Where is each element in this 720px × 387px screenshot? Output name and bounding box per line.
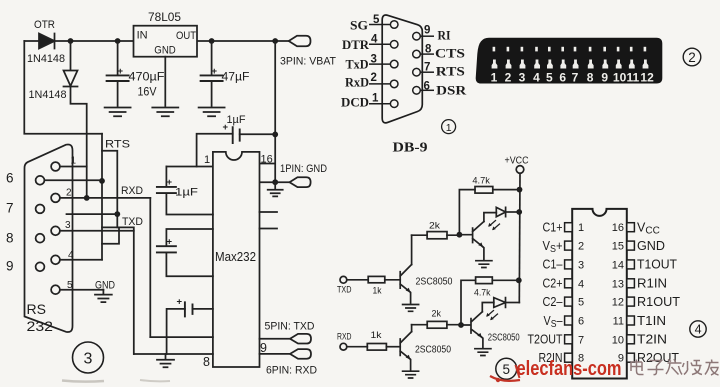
svg-text:C2–: C2– [543,295,563,309]
text U3 pin numbers right [612,222,624,365]
wire left rail down from diode anode [24,41,102,134]
text label T1OUT [637,258,677,272]
text label 5PIN TXD [265,321,315,333]
text label C2+ [543,277,563,291]
text DB9 pin number 1 [71,156,77,167]
svg-text:7: 7 [578,334,584,346]
svg-text:1k: 1k [373,286,382,297]
svg-text:+VCC: +VCC [505,156,529,167]
connector block pin contacts row2 [492,60,649,69]
text label 1k lower [371,330,382,341]
wire RTS net vertical [101,134,103,260]
text label TxD [346,57,369,72]
node dot T TXD junction [114,211,120,217]
svg-text:470µF: 470µF [129,70,165,84]
wire R4 right to VCC [492,279,519,281]
text label +VCC [505,156,529,167]
node dot 1uF cap junction [272,132,278,138]
capacitor C4 leads to Max232 [166,167,213,215]
wire Q4 collector to LED2 [482,303,494,312]
node dot pin15 GND junction [272,179,278,185]
node dot 4.7k2 [516,277,522,283]
text label T1IN [637,314,666,328]
text label 16V [138,85,157,99]
svg-text:4.7k: 4.7k [472,176,490,187]
text label RxD [345,75,369,90]
ground below Q4 [475,349,491,356]
text pin number 1 of Max232 [204,154,210,166]
svg-text:6: 6 [6,171,14,186]
text label TXD [122,216,143,228]
text label CTS [435,46,465,61]
wire bottom rail upper (to Max232) [150,336,213,338]
svg-text:11: 11 [613,316,624,328]
text pin number 8 of Max232 [203,355,210,369]
svg-text:+: + [167,237,173,248]
plus sign C5 [167,237,173,248]
svg-text:12: 12 [640,71,654,85]
watermark text elecfans.com [517,358,622,380]
text label DCD [341,95,369,110]
svg-text:1: 1 [372,93,379,105]
DB-9 pin 9 circle and lead [413,32,434,40]
svg-text:RTS: RTS [436,64,465,79]
svg-text:3: 3 [519,71,526,85]
node dot at VBAT tap [272,38,278,44]
text label C1+ [543,221,563,235]
svg-text:5: 5 [503,362,511,377]
ground below C2 [199,108,225,117]
wire from D2 cathode down then right then down to RS232 area [71,87,87,198]
text label 1uF top [227,114,246,126]
capacitor C6 leads [167,309,213,354]
capacitor C6 (horizontal near pin8) plates [185,302,193,316]
capacitor C2 47uF leads [211,41,213,106]
svg-text:GND: GND [154,45,176,57]
text label 4.7k lower [474,288,491,299]
capacitor C1 470uF plates [107,75,129,81]
resistor R3 1k body [368,276,385,282]
svg-text:2: 2 [66,188,72,199]
text label RI [438,28,451,43]
svg-text:4: 4 [533,71,540,85]
diode D2 1N4148 (vertical, pointing down) [64,71,78,87]
LED D4 of optocoupler [494,298,506,308]
svg-text:DTR: DTR [342,37,370,52]
text label R1IN [637,277,667,291]
wire RXD to R6 [347,346,368,348]
svg-text:1: 1 [204,154,210,166]
diode D1 1N4148 (series, horizontal) [39,34,55,49]
wire pin4 row [60,259,102,261]
text label 78L05 [148,10,181,24]
svg-text:1µF: 1µF [227,114,246,126]
text pinnum 7 [424,62,430,74]
wire pin15 stub and to 1PIN GND arrow [260,181,290,183]
svg-text:12: 12 [612,297,624,309]
terminal arrow 1PIN GND [290,177,311,187]
wire R2 leads [412,234,460,236]
svg-text:16V: 16V [138,85,157,99]
svg-text:2k: 2k [432,309,442,320]
capacitor C5 leads to Max232 [166,229,213,276]
wire pin1 row [60,166,87,168]
wire LED1 to VCC bus [506,211,520,213]
resistor R1 4.7k body [475,187,493,194]
text label 2k lower [432,309,442,320]
text label 3PIN VBAT [280,56,336,68]
svg-text:GND: GND [95,280,115,292]
wire VCC vertical bus [518,173,521,302]
text DB9 pin number 2 [66,188,72,199]
svg-text:CTS: CTS [435,46,465,61]
svg-text:10: 10 [612,334,624,346]
svg-text:11: 11 [627,71,640,85]
text label C1- [543,258,563,272]
text U3 pin numbers left [578,222,584,365]
svg-text:2SC8050: 2SC8050 [415,345,451,356]
text label R2OUT [637,351,679,365]
node dot Q4 base [458,322,464,328]
watermark chinese character dian [631,360,644,375]
svg-text:1: 1 [71,156,77,167]
svg-text:4: 4 [578,278,584,290]
text label 1uF left [175,187,198,199]
svg-text:13: 13 [612,278,624,290]
transistor Q3 2SC8050 [400,332,411,360]
wire TXD jog to bottom rail [102,227,134,354]
svg-text:6: 6 [559,71,566,85]
node dot Q2 base [457,232,463,238]
ground below 78L05 [152,108,178,117]
svg-text:RXD: RXD [121,185,143,197]
svg-text:4: 4 [695,323,702,337]
wire Max232 pin to 6PIN RXD arrow [260,353,291,355]
terminal arrow 6PIN RXD [290,349,311,359]
svg-text:DCD: DCD [341,95,369,110]
svg-text:232: 232 [27,319,54,334]
text label VS+ [543,239,563,255]
wire Q2 collector to LED1 [484,213,496,222]
text label 1N4148 upper [27,53,65,65]
watermark chinese character you [705,360,719,376]
text DB9 pin number 3 [65,220,71,231]
watermark red swoosh [490,365,520,382]
svg-text:GND: GND [637,239,665,253]
text label 1N4148 lower [29,89,67,101]
wire main power rail left segment [24,40,133,42]
svg-text:7: 7 [424,62,430,74]
svg-text:T2IN: T2IN [637,333,667,347]
svg-text:8: 8 [6,231,14,246]
connector shell RS232 DB9 left [25,144,73,332]
svg-text:8: 8 [587,71,594,85]
DB-9 pin 6 circle and lead [413,87,434,95]
capacitor C4 1uF (left upper) plates [157,187,176,193]
svg-text:1: 1 [446,122,452,134]
terminal +VCC circle [516,166,524,174]
svg-text:9: 9 [424,25,430,37]
resistor R4 4.7k body [476,277,493,284]
text pinnum 9 [424,25,430,37]
svg-text:3: 3 [84,351,93,368]
svg-text:1µF: 1µF [175,187,198,199]
terminal arrow 5PIN TXD [290,334,311,344]
text pinnum 1 [372,93,379,105]
text label GND regulator [154,45,176,57]
svg-text:2SC8050: 2SC8050 [488,333,520,344]
svg-text:9: 9 [601,71,608,85]
svg-text:5PIN: TXD: 5PIN: TXD [265,321,315,333]
text label 232 [27,319,54,334]
DB-9 pin 2 circle and lead [369,80,398,88]
resistor R5 2k body [427,321,447,328]
resistor R6 1k body [367,344,386,351]
text label 2SC8050 Q3 [415,345,451,356]
svg-text:TxD: TxD [346,57,369,72]
wire pin2 net vertical to lower rail [149,198,151,337]
svg-text:2: 2 [688,50,696,65]
text label R2IN [539,351,563,365]
svg-text:5: 5 [373,14,380,26]
text DB9 pin number 9 [6,259,14,274]
svg-text:TXD: TXD [337,285,352,295]
text pin number 9 of Max232 [260,341,267,355]
svg-text:T1OUT: T1OUT [637,258,677,272]
wire pin6 row to node C [44,179,102,181]
svg-text:C1–: C1– [543,258,563,272]
svg-text:+: + [177,297,183,308]
text label T2IN [637,333,667,347]
ground below Q2 [476,261,492,268]
connector block pin contacts row1 [493,47,647,52]
svg-text:R1OUT: R1OUT [637,295,680,309]
LED1 emission arrows [488,221,499,231]
LED2 emission arrows [486,311,497,321]
DB9 pin 9 circle [36,262,45,271]
text label GND ic [637,239,665,253]
text label 2k upper [429,221,440,232]
text label OTR [34,19,55,31]
svg-text:7: 7 [6,201,14,216]
terminal arrow 3PIN VBAT [289,36,311,46]
node dot at 470uF junction [115,38,121,44]
wire Q1 collector up to 2k [411,235,413,264]
connector shell DB-9 pinout diagram [382,15,422,123]
node dot 4.7k top [517,187,523,193]
svg-text:elecfans-com: elecfans-com [517,358,622,380]
wire TXD row left stub [67,213,118,215]
IC U3 left pin boxes 1-8 [565,223,573,363]
transistor Q4 2SC8050 [461,312,482,338]
text DB9 pin number 4 [68,250,74,261]
text DB9 pin number 6 [6,171,14,186]
text label 47uF [222,70,250,84]
capacitor C5 (left lower) plates [157,246,176,252]
svg-text:Max232: Max232 [215,250,256,264]
wire Max232 pin to 5PIN TXD arrow [260,338,291,340]
text DB9 pin number 7 [6,201,14,216]
svg-text:1PIN: GND: 1PIN: GND [280,163,327,175]
wire R3 to Q1 base [385,279,400,281]
wire 78L05 GND pin down [164,57,166,106]
text label SG [350,18,368,33]
wire Q3 emitter to ground [410,359,411,371]
text label RXD input [337,332,352,342]
capacitor C1 470uF leads [117,41,119,106]
text pinnum 5 [373,14,380,26]
DB9 pin 8 circle [36,234,45,243]
text label 470uF [129,70,165,84]
text label IN [137,30,148,42]
text label RTS right [436,64,465,79]
DB-9 pin 8 circle and lead [413,50,434,58]
DB-9 pin 1 circle and lead [369,100,398,108]
svg-text:9: 9 [260,341,267,355]
ground on bottom rail [157,354,174,367]
svg-text:TXD: TXD [122,216,143,228]
svg-text:1: 1 [578,222,584,234]
text pin number 16 of Max232 [261,154,273,166]
DB-9 pin 7 circle and lead [413,68,434,76]
svg-text:8: 8 [425,44,432,56]
text label DTR [342,37,370,52]
svg-text:4: 4 [68,250,74,261]
svg-text:4.7k: 4.7k [474,288,491,299]
watermark chinese character fa [666,359,682,375]
wire bottom rail lower (to Max232) [134,353,213,355]
svg-text:DB-9: DB-9 [393,140,428,155]
svg-text:2k: 2k [429,221,440,232]
wire Q3 collector up to R5 [411,325,413,332]
watermark chinese character shao [683,361,703,375]
wire small stair jog [102,227,119,243]
wire R1 to VCC [493,189,520,191]
plus sign C2 [212,66,218,77]
wire pin5 row GND [60,289,104,291]
text label DB-9 [393,140,428,155]
capacitor C3 1uF (top, horizontal) plates [233,127,240,143]
svg-text:2: 2 [505,71,512,85]
wire RTS jog [102,151,117,228]
plus sign C4 [167,177,173,188]
DB-9 pin 5 circle and lead [369,21,398,29]
svg-text:5: 5 [67,280,73,291]
svg-text:14: 14 [612,259,624,271]
svg-text:2: 2 [371,72,377,84]
text label T2OUT [528,333,563,347]
plus sign C6 [177,297,183,308]
svg-text:OUT: OUT [176,30,196,42]
connector block 12-pin (black) [476,38,662,83]
text pinnum 3 [371,54,377,66]
svg-text:1N4148: 1N4148 [29,89,67,101]
text label Max232 [215,250,256,264]
text label C2- [543,295,563,309]
node dot at D1 cathode junction [68,38,74,44]
svg-text:10: 10 [613,71,627,85]
wire Q4 emitter to ground [482,337,483,348]
svg-text:2SC8050: 2SC8050 [416,277,453,288]
svg-text:5: 5 [546,71,553,85]
svg-text:16: 16 [612,222,624,234]
DB-9 pin 4 circle and lead [369,41,398,49]
wire LED2 to VCC bus [506,302,520,304]
DB-9 pin 3 circle and lead [369,60,398,68]
wire R1 left down to base node [459,190,475,235]
node dot C on pin6 row [99,178,105,184]
svg-text:6PIN: RXD: 6PIN: RXD [266,365,317,377]
text label 4.7k upper [472,176,490,187]
svg-text:OTR: OTR [34,19,55,31]
svg-text:T1IN: T1IN [637,314,666,328]
text DB9 pin number 5 [67,280,73,291]
transistor Q1 2SC8050 [400,265,411,293]
ground below Q1 [403,305,419,312]
circled number 3 [73,342,104,373]
svg-text:3PIN: VBAT: 3PIN: VBAT [280,56,336,68]
svg-text:1k: 1k [371,330,382,341]
text label RS [27,302,47,317]
plus sign C1 [118,66,124,77]
svg-text:1: 1 [491,71,498,85]
text label RXD [121,185,143,197]
svg-text:7: 7 [572,71,579,85]
svg-text:78L05: 78L05 [148,10,181,24]
circled number 1 [442,120,456,134]
wire TXD to R3 [347,279,368,281]
wire pin3 row [60,230,134,232]
faint scan smudge bottom-left [62,380,170,382]
Max232 right stubs T1OUT R1IN [260,212,278,229]
resistor R2 2k body [427,232,447,239]
ground at DB9 pin5 [95,290,112,302]
svg-text:R1IN: R1IN [637,277,667,291]
circled number 4 [690,321,706,337]
DB9 pin 3 circle [51,226,60,235]
text pinnum 2 [371,72,377,84]
text label VS- [544,314,563,330]
wire R4 left down to Q4 base node [461,280,476,325]
svg-text:T2OUT: T2OUT [528,333,563,347]
ground below 1PIN GND node [268,182,283,196]
LED D3 of optocoupler [496,207,505,216]
regulator U2 78L05 body [134,26,198,57]
svg-text:16: 16 [261,154,273,166]
DB9 pin 1 circle [51,162,60,171]
text pinnum 4 [371,34,378,46]
IC U3 16-pin DIP body [572,209,627,379]
text label VCC [637,221,660,237]
DB9 pin 5 circle [51,285,60,294]
DB9 pin 6 circle [36,176,45,185]
wire VCC net vertical from rail to Max232 pin16 [260,41,276,182]
wire cap A top row into Max232 pin1 [166,166,213,168]
node dot LED1 cathode [516,209,522,215]
svg-text:+: + [118,66,124,77]
IC U1 Max232 body [213,152,260,367]
text pinnum 8 [425,44,432,56]
svg-text:+: + [212,66,218,77]
svg-text:C1+: C1+ [543,221,563,235]
capacitor C2 47uF plates [201,75,223,81]
svg-text:3: 3 [578,259,584,271]
svg-text:6: 6 [578,316,584,328]
svg-text:3: 3 [65,220,71,231]
wire R5 leads [412,324,461,326]
text label OUT [176,30,196,42]
svg-text:RXD: RXD [337,332,352,342]
